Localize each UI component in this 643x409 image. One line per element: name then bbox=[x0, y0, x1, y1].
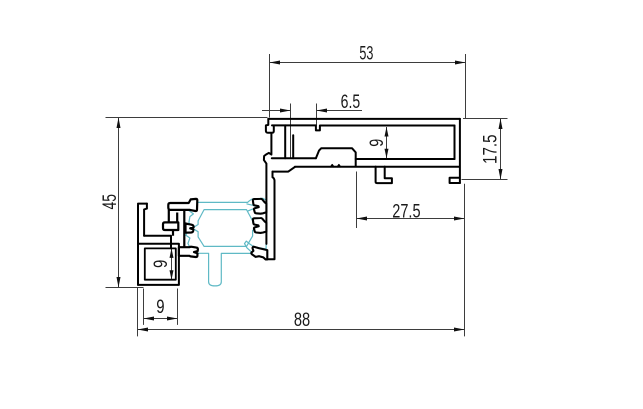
dim 53 extension left bbox=[269, 54, 271, 118]
svg-text:27.5: 27.5 bbox=[392, 201, 420, 222]
dim 53 line bbox=[270, 62, 466, 64]
dim 9 top line bbox=[386, 127, 388, 158]
dim 45 extension bottom bbox=[106, 287, 144, 289]
dim 27.5 extension left bbox=[356, 172, 358, 229]
F stem + wedge tooth T2 bbox=[169, 210, 185, 247]
bead left wall bbox=[137, 205, 139, 285]
middle arm (free end) bbox=[163, 222, 178, 230]
gasket rib into top-right tooth notch bbox=[247, 204, 259, 211]
chamber floor right bbox=[356, 158, 455, 160]
dim 9 bottom line bbox=[144, 318, 178, 320]
arrow 9 bottom left bbox=[144, 317, 155, 321]
chamfer to lower wall bbox=[273, 167, 295, 172]
arrow 27.5 left bbox=[357, 217, 368, 221]
tooth T3 at box corner bbox=[179, 247, 198, 257]
dim 6.5 extension right bbox=[316, 104, 318, 126]
euro-groove inner wall bbox=[284, 125, 286, 158]
dim 53 extension right bbox=[465, 54, 467, 119]
chamber ceiling with slot bbox=[272, 125, 455, 130]
profile top outer edge bbox=[268, 118, 460, 120]
dim 88 extension right bbox=[464, 184, 466, 337]
arrow 53 right bbox=[455, 61, 466, 65]
dim 45 extension top bbox=[106, 117, 268, 119]
profile top-left corner, hook1, left wall upper bbox=[264, 119, 274, 244]
svg-text:9: 9 bbox=[367, 139, 388, 147]
dim 6.5 tail left bbox=[262, 110, 291, 112]
interlock wiggle marks bbox=[331, 165, 341, 167]
dim 9 bottom extension left bbox=[143, 289, 145, 325]
arrow 9 box up bbox=[170, 248, 174, 258]
bead lip right edge + jog bbox=[144, 204, 147, 236]
profile right wall outer bbox=[459, 119, 461, 183]
svg-text:6.5: 6.5 bbox=[341, 92, 361, 113]
arrow 6.5 right (points left) bbox=[317, 109, 328, 113]
dim 9 bottom extension right bbox=[177, 289, 179, 325]
tooth R2 bbox=[253, 218, 267, 233]
tooth R3 (bottom, sloped) bbox=[251, 247, 267, 260]
dim 45 line bbox=[118, 118, 120, 288]
bead top cap bbox=[138, 203, 147, 205]
arrow 88 left bbox=[138, 328, 149, 332]
foot hook left (J-hook) bbox=[376, 167, 392, 184]
gasket outer contour bbox=[186, 198, 266, 286]
bead box inner bbox=[145, 248, 176, 279]
trapezoid bump bbox=[316, 148, 356, 166]
svg-text:9: 9 bbox=[151, 260, 172, 268]
arrow 53 left bbox=[270, 61, 281, 65]
tooth R1 bbox=[253, 199, 267, 214]
dim 9 box line bbox=[171, 248, 173, 279]
F arm + nose tooth T1 bbox=[168, 199, 197, 211]
chamber right inner wall bbox=[454, 126, 456, 160]
arrow 27.5 right bbox=[454, 217, 465, 221]
dim 17.5 extension top bbox=[463, 118, 508, 120]
arrow 17.5 up bbox=[499, 119, 503, 130]
tooth T2 wedge bbox=[186, 223, 194, 232]
arrow 9 top down bbox=[385, 149, 389, 159]
dim 17.5 line bbox=[500, 119, 502, 180]
profile right foot bbox=[450, 178, 460, 183]
arrow 6.5 left (points right) bbox=[280, 109, 291, 113]
svg-text:53: 53 bbox=[359, 44, 373, 65]
arrow 45 up bbox=[117, 118, 121, 129]
svg-text:88: 88 bbox=[294, 310, 310, 331]
bottom wall lower line bbox=[295, 166, 459, 168]
gasket inner void bbox=[192, 210, 259, 247]
bead shelf H2 bbox=[144, 236, 171, 249]
dim 88 line bbox=[138, 329, 465, 331]
arrow 9 box down bbox=[170, 270, 174, 280]
dim 17.5 extension bottom bbox=[462, 179, 508, 181]
groove fin bbox=[292, 135, 294, 158]
arrow 9 top up bbox=[385, 127, 389, 137]
svg-text:17.5: 17.5 bbox=[480, 134, 501, 164]
svg-text:45: 45 bbox=[100, 194, 121, 209]
svg-text:9: 9 bbox=[156, 297, 164, 318]
dim 6.5 extension left bbox=[290, 104, 292, 159]
dim 6.5 tail right bbox=[317, 110, 363, 112]
arrow 17.5 down bbox=[499, 169, 503, 180]
arrow 45 down bbox=[117, 277, 121, 288]
bead box outer bbox=[138, 244, 179, 285]
dim 27.5 line bbox=[357, 218, 465, 220]
chamber floor left bbox=[272, 157, 316, 159]
arrow 88 right bbox=[454, 328, 465, 332]
dim 88 extension left bbox=[137, 288, 139, 336]
arrow 9 bottom right bbox=[167, 317, 178, 321]
lower wall right line + chamfer bbox=[267, 172, 275, 260]
